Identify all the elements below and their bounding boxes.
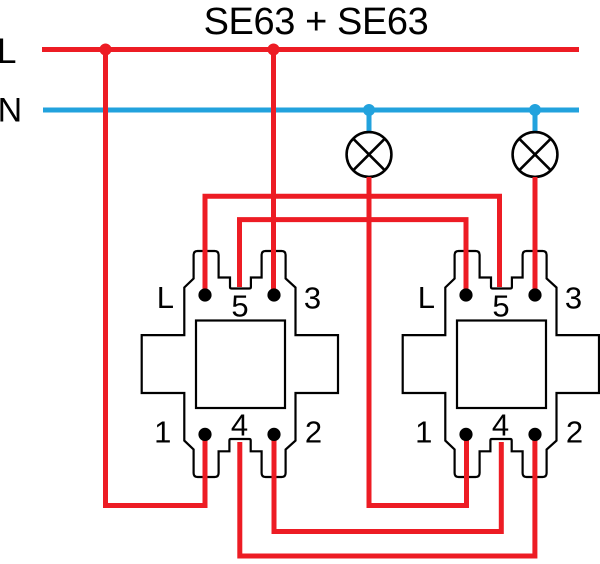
svg-text:5: 5 [231, 288, 248, 323]
svg-text:4: 4 [492, 407, 509, 442]
svg-text:L: L [0, 32, 16, 71]
svg-text:2: 2 [305, 415, 322, 450]
svg-text:N: N [0, 91, 22, 129]
svg-text:2: 2 [566, 415, 583, 450]
svg-text:3: 3 [304, 281, 321, 316]
svg-text:1: 1 [415, 414, 432, 449]
svg-text:3: 3 [565, 281, 582, 316]
svg-text:5: 5 [492, 288, 509, 323]
svg-text:1: 1 [154, 414, 171, 449]
svg-text:L: L [157, 280, 174, 315]
svg-text:L: L [418, 280, 435, 315]
svg-text:4: 4 [231, 407, 248, 442]
svg-text:SE63 + SE63: SE63 + SE63 [204, 1, 429, 43]
